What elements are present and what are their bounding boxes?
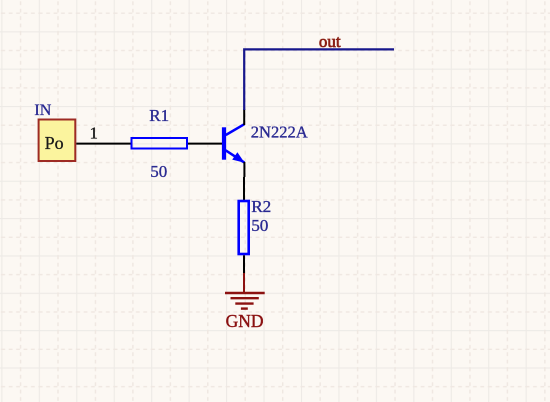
wire port to R1 (76, 143, 131, 145)
wire R2 to GND (243, 255, 245, 274)
resistor R1 (132, 138, 188, 149)
wire out net (244, 49, 394, 110)
svg-text:1: 1 (90, 124, 98, 143)
transistor Q1 2N222A (222, 109, 245, 177)
port Po (39, 120, 76, 162)
wire emitter to R2 (243, 177, 245, 201)
power port GND (225, 273, 265, 309)
resistor R2 (239, 201, 249, 254)
svg-text:R1: R1 (149, 106, 169, 125)
svg-text:Po: Po (45, 133, 64, 153)
svg-text:GND: GND (226, 311, 264, 331)
svg-text:out: out (319, 32, 341, 51)
svg-text:2N222A: 2N222A (251, 123, 308, 142)
wire R1 to transistor base (188, 143, 222, 145)
svg-text:IN: IN (34, 102, 51, 119)
svg-text:R2: R2 (251, 197, 271, 216)
svg-text:50: 50 (251, 216, 268, 235)
svg-text:50: 50 (150, 162, 167, 181)
